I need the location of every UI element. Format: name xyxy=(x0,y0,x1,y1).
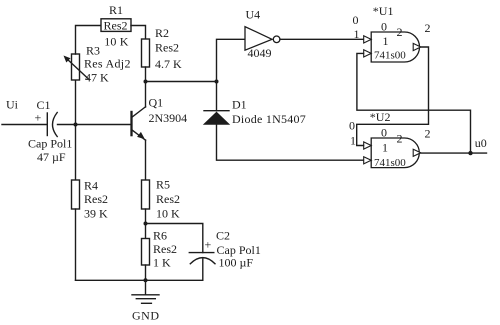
svg-text:Res2: Res2 xyxy=(156,192,180,206)
ground bar 3 xyxy=(142,302,152,304)
wire node A up to R3 xyxy=(75,80,77,125)
wire node D to R6 xyxy=(145,224,147,239)
wire U1 output to U2 input 1 feedback xyxy=(357,47,429,146)
wire R6 to bottom rail xyxy=(145,265,147,280)
svg-text:0: 0 xyxy=(381,20,387,34)
svg-text:Res Adj2: Res Adj2 xyxy=(84,57,131,71)
node A junction xyxy=(74,123,78,127)
svg-text:2: 2 xyxy=(397,132,403,146)
svg-text:R2: R2 xyxy=(155,26,169,40)
wire R4 down to bottom rail xyxy=(75,209,77,280)
gate U1 NAND 741s00 xyxy=(353,4,431,62)
C2 negative curved plate xyxy=(190,258,215,264)
wire C1 to node A xyxy=(58,124,76,126)
svg-text:2: 2 xyxy=(397,25,403,39)
wire Q1 collector up to node B xyxy=(145,82,147,108)
svg-text:Ui: Ui xyxy=(6,98,19,112)
wire U4 output to U1 input 1 xyxy=(280,38,364,40)
svg-text:4.7 K: 4.7 K xyxy=(155,57,182,71)
U2 output arrow xyxy=(413,149,421,156)
R2 body xyxy=(142,39,150,67)
svg-text:741s00: 741s00 xyxy=(374,50,406,62)
svg-text:2N3904: 2N3904 xyxy=(149,111,188,125)
wire Q1 base from node A xyxy=(76,124,132,126)
svg-text:0: 0 xyxy=(381,126,387,140)
svg-text:GND: GND xyxy=(132,309,160,323)
svg-text:Q1: Q1 xyxy=(149,96,164,110)
U4 output bubble xyxy=(273,36,280,43)
svg-text:Res2: Res2 xyxy=(155,41,179,55)
ground stem xyxy=(145,280,147,295)
svg-text:1 K: 1 K xyxy=(153,256,171,270)
inverter U4 (4049) xyxy=(245,8,280,61)
wire R2 to node B xyxy=(145,67,147,82)
U4 triangle xyxy=(245,27,272,51)
ground xyxy=(132,280,160,322)
svg-text:R5: R5 xyxy=(156,178,170,192)
svg-text:D1: D1 xyxy=(232,98,247,112)
R3 body xyxy=(72,54,80,80)
svg-text:100 µF: 100 µF xyxy=(219,256,254,270)
node GND junction xyxy=(144,278,148,282)
ground bar 1 xyxy=(132,294,159,296)
R1 body xyxy=(101,19,131,32)
U1 input 1 arrow xyxy=(364,36,372,43)
svg-text:R3: R3 xyxy=(86,44,100,58)
svg-text:*U2: *U2 xyxy=(370,110,391,124)
svg-text:+: + xyxy=(35,111,42,125)
resistor R5 xyxy=(142,178,181,221)
svg-text:Diode 1N5407: Diode 1N5407 xyxy=(232,112,306,126)
svg-text:10 K: 10 K xyxy=(156,207,180,221)
svg-text:Res2: Res2 xyxy=(153,242,177,256)
wire input Ui xyxy=(2,124,47,126)
R6 body xyxy=(142,239,150,266)
capacitor C1 xyxy=(28,98,72,164)
svg-text:R4: R4 xyxy=(84,179,98,193)
wire Q1 emitter down to R5 xyxy=(145,140,147,180)
svg-text:1: 1 xyxy=(382,141,388,155)
R5 body xyxy=(142,180,150,209)
svg-text:Res2: Res2 xyxy=(104,19,128,33)
wire R5 to node D xyxy=(145,209,147,224)
R4 body xyxy=(72,180,80,209)
node u0 junction xyxy=(468,151,472,155)
wire U2 output to node u0 xyxy=(421,152,487,154)
wire D1 anode to U2 input 2 xyxy=(217,125,364,160)
svg-text:4049: 4049 xyxy=(248,46,272,60)
wire node D to C2 top xyxy=(146,224,203,253)
svg-text:10 K: 10 K xyxy=(104,34,129,48)
D1 cathode bar xyxy=(204,110,229,112)
Q1 collector stroke xyxy=(132,107,146,118)
wire R3 top to rail xyxy=(76,26,102,55)
svg-text:Cap Pol1: Cap Pol1 xyxy=(28,137,72,151)
U1 output arrow xyxy=(413,43,421,50)
resistor R6 xyxy=(142,229,178,270)
wire node A down to R4 xyxy=(75,125,77,181)
svg-text:u0: u0 xyxy=(475,136,487,150)
svg-text:39 K: 39 K xyxy=(84,207,108,221)
svg-text:2: 2 xyxy=(425,21,431,35)
wire node C up to U4 input xyxy=(217,39,246,81)
svg-text:R6: R6 xyxy=(153,229,167,243)
U2 body xyxy=(371,138,419,168)
node D junction xyxy=(144,222,148,226)
resistor R2 xyxy=(142,26,183,71)
ground bar 2 xyxy=(136,298,155,300)
Q1 base bar xyxy=(130,111,132,137)
resistor R4 xyxy=(72,179,109,221)
R3 adjust arrow xyxy=(67,59,89,79)
svg-text:*U1: *U1 xyxy=(373,4,394,18)
U2 input 1 arrow xyxy=(364,142,372,149)
node B junction xyxy=(144,80,148,84)
C2 positive plate xyxy=(189,252,214,254)
wire R1 to R2 xyxy=(131,26,146,40)
wire node C down through D1 xyxy=(216,82,218,111)
U2 input 2 arrow xyxy=(364,157,372,164)
svg-text:1: 1 xyxy=(354,27,360,41)
resistor R1 xyxy=(101,3,131,48)
diode D1 (1N5407) xyxy=(203,98,306,127)
svg-text:R1: R1 xyxy=(109,3,123,17)
capacitor C2 xyxy=(146,224,261,281)
svg-text:1: 1 xyxy=(383,34,389,48)
D1 triangle xyxy=(203,112,230,125)
svg-text:0: 0 xyxy=(353,13,359,27)
node C junction xyxy=(215,80,219,84)
transistor Q1 (2N3904) xyxy=(132,96,188,141)
C1 negative curved plate xyxy=(53,113,58,137)
wire U1 input 2 feedback from node u0 xyxy=(357,53,471,153)
svg-text:0: 0 xyxy=(349,118,355,132)
C1 positive plate xyxy=(46,113,48,136)
svg-text:741s00: 741s00 xyxy=(374,157,406,169)
svg-text:47 µF: 47 µF xyxy=(37,150,66,164)
svg-text:1: 1 xyxy=(350,134,356,148)
resistor R3 (Res Adj2) xyxy=(64,44,131,85)
svg-text:U4: U4 xyxy=(246,8,261,22)
wire node B to node C xyxy=(146,81,217,83)
svg-text:47 K: 47 K xyxy=(85,71,109,85)
svg-text:C2: C2 xyxy=(216,229,230,243)
U1 body xyxy=(371,32,419,62)
svg-text:2: 2 xyxy=(425,127,431,141)
U1 input 2 arrow xyxy=(364,50,372,57)
wire C2 bottom to rail xyxy=(202,259,204,280)
wire bottom rail xyxy=(76,279,203,281)
svg-text:Res2: Res2 xyxy=(84,192,108,206)
svg-text:+: + xyxy=(205,238,212,252)
Q1 emitter stroke xyxy=(132,130,146,141)
gate U2 NAND 741s00 xyxy=(349,110,431,169)
Q1 emitter arrowhead xyxy=(137,132,145,139)
